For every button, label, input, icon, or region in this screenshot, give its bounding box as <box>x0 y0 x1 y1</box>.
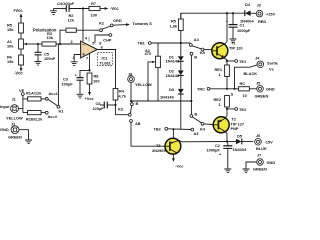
wire <box>20 33 22 39</box>
svg-text:RC: RC <box>240 81 246 86</box>
svg-text:Vs: Vs <box>269 67 274 72</box>
capacitor C1 <box>226 13 251 42</box>
svg-text:GND: GND <box>0 127 9 132</box>
transistor T3 <box>152 138 181 154</box>
svg-text:J7: J7 <box>257 153 261 158</box>
svg-text:YELLOW: YELLOW <box>6 116 23 121</box>
resistor R2 <box>66 13 76 32</box>
svg-text:Av=4: Av=4 <box>48 114 58 119</box>
wire <box>20 49 22 55</box>
connector J1 input <box>0 97 23 121</box>
svg-text:220µF: 220µF <box>93 106 105 111</box>
switch K3 <box>118 101 141 126</box>
resistor R3 <box>42 31 56 46</box>
input section <box>0 44 64 144</box>
wire VE column <box>22 95 24 112</box>
svg-text:C6: C6 <box>96 101 102 106</box>
wire pin4 vertical <box>82 9 84 42</box>
svg-text:AB: AB <box>135 121 141 126</box>
wire T3 collector column <box>172 129 174 138</box>
resistor R6 <box>7 55 23 66</box>
node TE1 <box>226 59 247 64</box>
wire R4 to K3 <box>116 100 129 115</box>
capacitor C5 <box>35 44 56 61</box>
diode D4 <box>240 2 256 23</box>
svg-text:K3: K3 <box>118 106 124 111</box>
pin 7 wire <box>86 54 90 71</box>
svg-text:A3: A3 <box>194 131 200 136</box>
node -Vcc T3 <box>172 154 184 169</box>
svg-text:VE: VE <box>19 88 25 93</box>
potentiometer A2 <box>145 43 161 101</box>
diode D2 <box>166 61 184 78</box>
resistor R4 <box>113 89 127 101</box>
svg-text:10k: 10k <box>47 35 54 40</box>
transistor T1 <box>212 13 243 61</box>
resistor RC <box>227 81 257 98</box>
transistor T2 <box>213 109 244 142</box>
capacitor C6 <box>93 101 116 111</box>
capacitor C2 <box>207 142 233 173</box>
svg-text:100: 100 <box>91 13 98 18</box>
svg-text:TB1: TB1 <box>138 41 146 46</box>
ground (C4 left) <box>50 9 57 15</box>
switch K1 <box>48 44 65 114</box>
svg-text:TRC: TRC <box>197 87 205 92</box>
connector J7 <box>243 153 276 173</box>
wire T3 emitter to rail <box>179 140 227 142</box>
junction C1 <box>232 12 234 14</box>
resistor R7 <box>89 1 100 18</box>
svg-text:R1B/2,2k: R1B/2,2k <box>26 117 43 122</box>
wire K3 B stub <box>131 101 133 103</box>
svg-text:K1: K1 <box>59 109 65 114</box>
wire R2 to pin2 <box>60 30 66 44</box>
svg-text:GND: GND <box>267 160 276 165</box>
svg-text:470: 470 <box>145 51 152 56</box>
svg-text:-15V: -15V <box>265 140 274 145</box>
node -Vcc <box>14 65 23 76</box>
junction T2 collector rail <box>226 140 228 142</box>
svg-text:YELLOW: YELLOW <box>135 82 152 87</box>
right power section <box>181 2 279 173</box>
svg-text:GREEN: GREEN <box>253 167 267 172</box>
svg-text:Polarisation: Polarisation <box>33 28 57 33</box>
svg-text:2N2905: 2N2905 <box>152 148 166 153</box>
svg-text:D3: D3 <box>169 87 175 92</box>
svg-text:BLUE: BLUE <box>256 146 267 151</box>
wire <box>20 19 22 23</box>
connector J4 <box>235 56 279 89</box>
junction K1/pin2 <box>57 43 59 45</box>
wire <box>56 43 81 45</box>
svg-text:A3: A3 <box>194 37 200 42</box>
pin 3 wire and ground <box>71 55 81 66</box>
connector J5 <box>255 81 275 99</box>
svg-text:1000µF: 1000µF <box>237 28 251 33</box>
connector J2 GND <box>0 122 29 140</box>
IC1 dashed box <box>98 53 113 66</box>
junction J8/row <box>130 100 132 102</box>
wire diode column down <box>180 94 182 129</box>
svg-text:B: B <box>194 54 197 59</box>
svg-text:12k: 12k <box>68 18 75 23</box>
ground C3 <box>77 94 84 98</box>
svg-text:GND: GND <box>266 87 275 92</box>
capacitor C3 <box>62 70 90 94</box>
svg-text:IC1: IC1 <box>102 55 109 60</box>
svg-text:K5: K5 <box>200 50 206 55</box>
pin 5 stub CHP <box>92 34 112 46</box>
junction row/B column <box>190 100 192 102</box>
svg-text:S: S <box>231 92 234 97</box>
resistor R8 <box>87 73 99 84</box>
svg-text:B: B <box>195 111 198 116</box>
svg-text:B: B <box>136 101 139 106</box>
node S junction <box>226 88 236 97</box>
svg-text:+Vcc: +Vcc <box>13 8 23 13</box>
resistor R1A <box>23 91 59 102</box>
svg-text:K4: K4 <box>200 127 206 132</box>
svg-text:GREEN: GREEN <box>8 135 22 140</box>
junction C6/R4 <box>114 104 116 106</box>
resistor R5 1,8k <box>170 13 184 43</box>
svg-text:Sortie: Sortie <box>267 61 279 66</box>
junction C5 <box>37 43 39 45</box>
svg-text:Input: Input <box>0 104 10 109</box>
ground J2 <box>25 140 32 144</box>
svg-text:Av=1: Av=1 <box>49 91 59 96</box>
connector J3 <box>256 2 275 24</box>
diode D5 <box>227 133 253 152</box>
svg-text:BLACK: BLACK <box>244 71 258 76</box>
svg-text:100µF: 100µF <box>62 81 74 86</box>
svg-text:TB2: TB2 <box>154 127 162 132</box>
svg-text:-Vcc: -Vcc <box>175 164 184 169</box>
svg-text:ORD: ORD <box>113 18 122 23</box>
node TRC <box>197 87 227 92</box>
svg-text:C4/100µF: C4/100µF <box>57 1 75 6</box>
junction A3/R5 column <box>180 42 182 44</box>
svg-text:10k: 10k <box>7 43 14 48</box>
svg-text:-Vcc: -Vcc <box>110 6 119 11</box>
svg-text:1N4148: 1N4148 <box>166 73 180 78</box>
node TB2 <box>154 127 191 132</box>
resistor RE1 <box>215 61 230 89</box>
junction T1 collector <box>226 12 228 14</box>
svg-text:D5: D5 <box>237 133 243 138</box>
svg-text:1N4004: 1N4004 <box>233 147 247 152</box>
svg-text:TIP 120: TIP 120 <box>229 45 243 50</box>
svg-text:7: 7 <box>86 55 88 60</box>
svg-text:+Vcc: +Vcc <box>85 96 95 101</box>
node +Vcc arrow <box>85 84 95 101</box>
switch K5 <box>189 44 211 60</box>
junction pin7/C3 <box>88 69 90 71</box>
node TB1 <box>138 41 152 46</box>
wire row 101 <box>131 100 191 102</box>
connector J6 <box>255 133 273 151</box>
resistor R1B <box>23 111 58 122</box>
svg-text:1N4148: 1N4148 <box>160 94 174 99</box>
capacitor C4 <box>54 1 90 12</box>
svg-text:1,8k: 1,8k <box>170 23 178 28</box>
svg-text:1N4148: 1N4148 <box>166 59 180 64</box>
svg-text:+15V: +15V <box>266 11 276 16</box>
middle section <box>113 13 227 168</box>
svg-text:4,7k: 4,7k <box>119 94 127 99</box>
diode D3 <box>160 76 184 100</box>
svg-text:R7: R7 <box>91 1 96 6</box>
svg-text:-Vcc: -Vcc <box>14 71 23 76</box>
ground <box>35 62 42 66</box>
svg-text:D4: D4 <box>245 2 251 7</box>
svg-text:C1: C1 <box>240 23 246 28</box>
wire AB to T3 base <box>131 122 165 146</box>
node ORD towards S <box>113 18 152 26</box>
op-amp IC1 triangle <box>81 41 98 58</box>
potentiometer A1 <box>7 39 27 49</box>
wire wiper row <box>27 43 42 45</box>
svg-text:TE2: TE2 <box>239 107 247 112</box>
svg-text:100: 100 <box>93 79 100 84</box>
wire R2 to K2 <box>76 29 99 31</box>
svg-text:TE1: TE1 <box>239 59 247 64</box>
svg-text:CHP: CHP <box>103 37 112 42</box>
svg-text:GREEN: GREEN <box>255 94 269 99</box>
node +Vcc <box>13 8 23 19</box>
svg-text:15k: 15k <box>7 27 14 32</box>
switch K4 <box>190 111 213 136</box>
diode D1 <box>166 43 184 64</box>
svg-text:PNP: PNP <box>231 126 239 131</box>
switch K2 <box>99 20 113 31</box>
node -Vcc arrow <box>100 6 119 11</box>
svg-text:100nF: 100nF <box>44 56 56 61</box>
svg-text:15k: 15k <box>7 59 14 64</box>
svg-text:TL081: TL081 <box>100 61 112 66</box>
wire B column <box>190 55 192 114</box>
opamp section <box>50 1 152 111</box>
resistor RE2 <box>214 96 230 109</box>
wire top rail <box>181 13 245 19</box>
left bias chain <box>7 8 81 76</box>
svg-text:RED: RED <box>258 19 266 24</box>
wire A3 row top <box>151 42 190 44</box>
svg-text:R1A/12k: R1A/12k <box>26 91 42 96</box>
junction pin4 rail <box>82 7 84 9</box>
svg-text:Towards S: Towards S <box>133 21 153 26</box>
junction TB2 row / T3 column <box>172 128 174 130</box>
svg-text:K2: K2 <box>99 20 105 25</box>
svg-text:10: 10 <box>243 93 247 98</box>
pin 6 output wire <box>97 41 115 89</box>
node TE2 <box>226 107 247 112</box>
pin 1 stub <box>88 37 90 42</box>
connector J8 yellow <box>128 71 152 101</box>
node VE <box>19 88 25 95</box>
resistor R5 <box>7 23 23 34</box>
